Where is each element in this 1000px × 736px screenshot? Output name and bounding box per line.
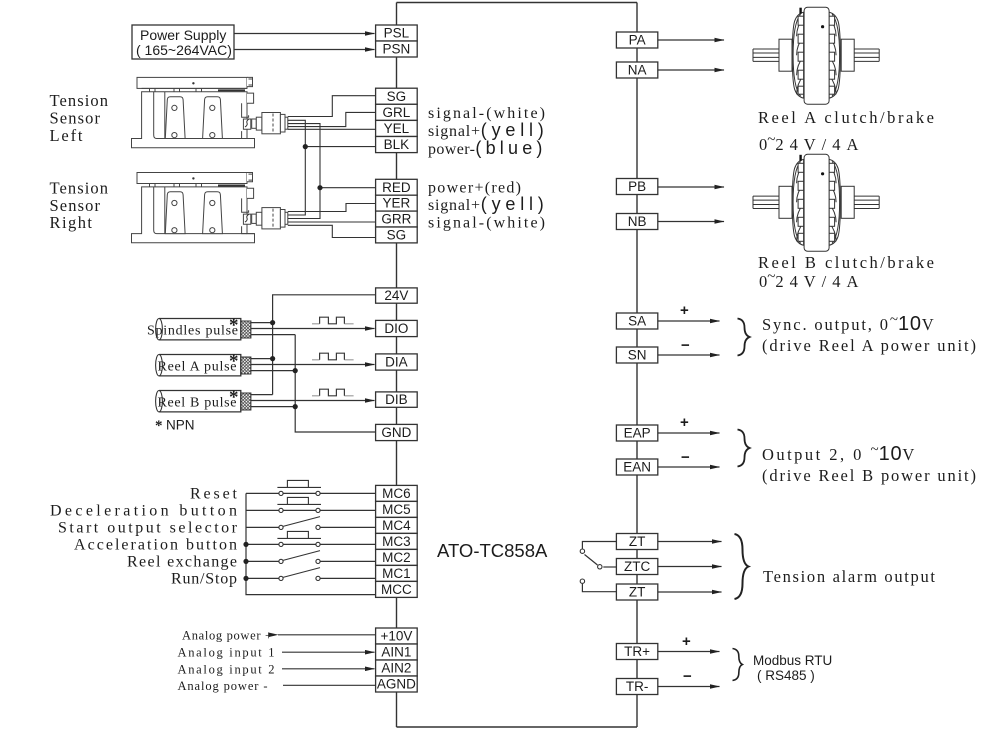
svg-text:+: + (680, 302, 689, 319)
wire reelA top (251, 358, 273, 360)
svg-text:Analog input 1: Analog input 1 (178, 646, 275, 660)
junction 24Vbus/spindles (270, 320, 275, 325)
pulse source Reel B (156, 387, 251, 412)
wire SN output (658, 354, 720, 356)
svg-text:ATO-TC858A: ATO-TC858A (437, 540, 548, 561)
svg-text:Power Supply: Power Supply (140, 27, 226, 43)
junction GNDbus/reelB (293, 404, 298, 409)
svg-text:Spindles pulse: Spindles pulse (147, 324, 238, 339)
wire BLK tee (305, 146, 375, 148)
terminal SA (616, 313, 657, 329)
terminal YEL (376, 120, 418, 136)
svg-text:+10V: +10V (380, 629, 412, 644)
terminal MC1 (376, 565, 418, 581)
contact circles MC5 (279, 508, 283, 512)
svg-text:*: * (229, 387, 239, 408)
svg-text:Analog input 2: Analog input 2 (178, 662, 275, 676)
wire AIN1 (282, 651, 375, 653)
terminal +10V (376, 628, 418, 644)
wire AIN2 (282, 668, 375, 670)
wire ZT1 left (582, 542, 616, 549)
wire power supply to PSN (234, 49, 375, 51)
wire ZT2 out (658, 591, 722, 593)
selector MC2 (283, 551, 320, 561)
junction bus/MC2 (243, 559, 248, 564)
pulse waveform DIA (312, 359, 354, 361)
terminal ZTC (616, 559, 657, 575)
terminal 24V (376, 288, 418, 303)
wire power supply to PSL (234, 33, 375, 35)
terminal MCC (376, 581, 418, 597)
svg-text:Reel A clutch/brake: Reel A clutch/brake (758, 108, 934, 127)
ZT alarm relay wires (582, 542, 616, 592)
svg-text:*: * (229, 315, 239, 336)
wire L4 to GRL (288, 112, 376, 126)
body dot (821, 25, 824, 28)
svg-text:MCC: MCC (381, 582, 412, 597)
svg-text:0~24V/4A: 0~24V/4A (759, 269, 858, 291)
terminal ZT (top) (616, 534, 657, 550)
selector MC1 (283, 568, 320, 578)
svg-text:Acceleration button: Acceleration button (74, 537, 237, 554)
svg-text:Reel B pulse: Reel B pulse (158, 396, 237, 411)
svg-text:SG: SG (387, 228, 407, 243)
svg-text:Start output selector: Start output selector (58, 520, 238, 537)
wire spindles top (251, 322, 273, 324)
svg-text:MC4: MC4 (382, 518, 411, 533)
pushbutton MC6 (277, 480, 321, 487)
svg-text:DIB: DIB (385, 392, 408, 407)
svg-text:Sync. output, 0~10V: Sync. output, 0~10V (762, 312, 934, 335)
pulse source Spindles (147, 315, 251, 340)
controller outline (big rectangle) (397, 3, 638, 728)
terminal PSN (376, 41, 418, 57)
selector MC4 (283, 517, 320, 527)
svg-text:Sensor: Sensor (50, 108, 101, 127)
svg-text:SN: SN (628, 348, 647, 363)
svg-text:NPN: NPN (166, 418, 195, 433)
right disc (829, 12, 840, 98)
svg-text:MC3: MC3 (382, 534, 411, 549)
svg-text:SA: SA (628, 314, 646, 329)
wire reelA mid to DIA (251, 364, 375, 366)
svg-text:TR-: TR- (626, 679, 649, 694)
brace output2 (738, 430, 750, 467)
wire ZT1 out (658, 541, 722, 543)
svg-text:+: + (682, 633, 691, 650)
terminal GRL (376, 104, 418, 120)
svg-text:Modbus RTU: Modbus RTU (753, 653, 832, 668)
tension sensor left (load cell drawing) (132, 77, 288, 147)
wire L3 shared red vertical (288, 124, 320, 219)
label tension sensor right (50, 178, 109, 232)
key tick (799, 8, 801, 14)
terminal DIB (376, 392, 418, 407)
svg-text:ZT: ZT (629, 585, 646, 600)
svg-text:Reset: Reset (190, 486, 238, 503)
svg-text:*: * (229, 351, 239, 372)
svg-text:PB: PB (628, 179, 646, 194)
svg-text:signal+(yell): signal+(yell) (428, 194, 544, 214)
wire GND bus vertical (295, 335, 375, 432)
wire ZTC out (658, 566, 722, 568)
svg-text:0~24V/4A: 0~24V/4A (759, 132, 858, 154)
terminal GRR (376, 211, 418, 227)
svg-text:Sensor: Sensor (50, 196, 101, 215)
svg-text:Output 2, 0 ~10V: Output 2, 0 ~10V (762, 442, 914, 465)
terminal AIN2 (376, 660, 418, 676)
wire R5 to SG2 (288, 225, 376, 237)
svg-text:−: − (681, 337, 690, 354)
terminal DIA (376, 354, 418, 370)
svg-text:EAN: EAN (623, 460, 651, 475)
wire reelB bottom (251, 406, 295, 408)
right shaft (853, 49, 879, 61)
terminal PA (616, 32, 657, 48)
svg-text:GRL: GRL (383, 105, 411, 120)
inner slot (154, 92, 247, 139)
wire R4 to GRR (288, 221, 376, 223)
right terminal column (616, 32, 657, 695)
svg-text:AGND: AGND (377, 677, 416, 692)
wire spindles mid to DIO (251, 328, 375, 330)
left hub (779, 39, 792, 71)
svg-text:24V: 24V (384, 288, 408, 303)
svg-text:ZTC: ZTC (624, 559, 650, 574)
tab 1 (165, 97, 185, 139)
svg-text:GND: GND (381, 425, 411, 440)
terminal MC6 (376, 485, 418, 501)
svg-text:Analog power +: Analog power + (182, 628, 272, 642)
svg-text:MC6: MC6 (382, 486, 411, 501)
svg-text:NA: NA (628, 63, 647, 78)
svg-text:MC5: MC5 (382, 502, 411, 517)
24V bus wiring (251, 295, 376, 432)
svg-text:−: − (683, 668, 692, 685)
svg-text:MC1: MC1 (382, 566, 411, 581)
wire reelB mid to DIB (251, 400, 375, 402)
terminal BLK (376, 137, 418, 153)
svg-text:Reel exchange: Reel exchange (127, 554, 237, 571)
terminal PB (616, 179, 657, 195)
svg-text:PSL: PSL (384, 26, 410, 41)
left disc (792, 12, 803, 98)
junction bus/MC3 (243, 542, 248, 547)
wire AGND (283, 684, 376, 686)
svg-text:Analog power -: Analog power - (178, 679, 268, 693)
svg-text:SG: SG (387, 89, 407, 104)
junction red/RED (317, 185, 322, 190)
svg-text:YER: YER (383, 196, 411, 211)
junction GNDbus/reelA (293, 368, 298, 373)
terminal DIO (376, 320, 418, 336)
relay moving contact (585, 555, 598, 566)
svg-text:AIN2: AIN2 (381, 661, 411, 676)
svg-text:MC2: MC2 (382, 550, 411, 565)
wire spindles bottom (251, 334, 295, 336)
svg-text:Tension: Tension (50, 178, 109, 197)
wire MC3 row (246, 543, 376, 545)
terminal EAP (616, 425, 657, 441)
svg-text:NB: NB (628, 214, 647, 229)
wire reelB top (251, 394, 273, 396)
terminal EAN (616, 459, 657, 475)
terminal AIN1 (376, 644, 418, 660)
terminal MC3 (376, 533, 418, 549)
pushbutton MC3 (277, 531, 321, 538)
wire L5 to YEL (288, 128, 376, 130)
terminal SG2 (376, 227, 418, 243)
svg-text:BLK: BLK (384, 137, 410, 152)
top bar (137, 77, 247, 88)
tension sensor right (load cell drawing) (132, 173, 288, 243)
right side blocks (247, 77, 253, 86)
svg-text:Tension alarm output: Tension alarm output (763, 567, 935, 586)
svg-text:PA: PA (629, 33, 646, 48)
wire L2 shared blue vertical (288, 120, 306, 215)
svg-text:Left: Left (50, 126, 83, 145)
terminal SN (616, 347, 657, 363)
svg-text:+: + (680, 414, 689, 431)
svg-text:Run/Stop: Run/Stop (171, 571, 237, 588)
svg-text:RED: RED (382, 180, 411, 195)
terminal MC2 (376, 549, 418, 565)
svg-text:(drive Reel B power unit): (drive Reel B power unit) (762, 466, 976, 485)
svg-text:YEL: YEL (384, 121, 410, 136)
svg-text:( RS485 ): ( RS485 ) (757, 668, 815, 683)
terminal TR+ (616, 644, 657, 660)
wire TR+ out (658, 651, 720, 653)
center body (804, 7, 829, 104)
terminal GND (376, 424, 418, 440)
wire EAN output (658, 466, 720, 468)
terminal MC4 (376, 517, 418, 533)
svg-text:( 165~264VAC): ( 165~264VAC) (136, 42, 232, 58)
contact circles MC6 (279, 491, 283, 495)
svg-text:−: − (681, 449, 690, 466)
left shaft (753, 49, 779, 61)
connector plug (252, 119, 257, 128)
terminal YER (376, 195, 418, 211)
svg-text:ZT: ZT (629, 534, 646, 549)
wire PA to reel A (658, 39, 724, 41)
relay contact circle 1 (580, 549, 584, 553)
tab 2 (203, 97, 223, 139)
strip under bar (142, 88, 247, 91)
terminal PSL (376, 25, 418, 41)
svg-text:Reel B clutch/brake: Reel B clutch/brake (758, 253, 934, 272)
terminal RED (376, 179, 418, 195)
relay contact circle 2 (598, 565, 602, 569)
terminal TR- (616, 679, 657, 695)
svg-text:(drive Reel A power unit): (drive Reel A power unit) (762, 336, 976, 355)
svg-text:power-(blue): power-(blue) (428, 138, 542, 158)
wire +10V arrow left (278, 634, 376, 636)
svg-text:Reel A pulse: Reel A pulse (158, 360, 237, 375)
svg-text:signal+(yell): signal+(yell) (428, 120, 544, 140)
wire MC4 row (246, 526, 376, 528)
power supply box (132, 25, 234, 59)
connector strain squiggle (243, 119, 250, 129)
body outline with flange (132, 92, 255, 148)
svg-text:signal-(white): signal-(white) (428, 215, 545, 232)
relay contact circle 3 (580, 579, 584, 583)
wire PB to reel B (658, 186, 724, 188)
brace modbus (733, 649, 743, 681)
reel B clutch/brake drawing (753, 154, 879, 251)
svg-text:DIA: DIA (385, 355, 408, 370)
svg-text:Right: Right (50, 213, 93, 232)
wire reelA bottom (251, 370, 295, 372)
wire ZT2 left (582, 584, 616, 592)
svg-text:TR+: TR+ (624, 644, 650, 659)
terminal NA (616, 62, 657, 78)
reel A clutch/brake drawing (753, 7, 879, 104)
terminal MC5 (376, 501, 418, 517)
svg-text:EAP: EAP (624, 426, 651, 441)
contact circles MC1 (279, 576, 283, 580)
wire SA output (658, 320, 720, 322)
wire R1 to YER (288, 204, 376, 212)
contact circles MC4 (279, 525, 283, 529)
wire MC1 row (246, 577, 376, 579)
junction bus/MC1 (243, 576, 248, 581)
wire RED tee (320, 187, 376, 189)
junction 24Vbus/reelA (270, 356, 275, 361)
label tension sensor left (50, 91, 109, 145)
wire NA to reel A (658, 69, 724, 71)
wire NB to reel B (658, 221, 724, 223)
MC left bus (246, 493, 376, 594)
svg-text:GRR: GRR (381, 212, 411, 227)
pushbutton MC5 (277, 497, 321, 504)
svg-text:DIO: DIO (384, 321, 408, 336)
svg-text:Deceleration button: Deceleration button (50, 503, 237, 520)
pulse waveform DIB (312, 395, 354, 397)
pulse source Reel A (156, 351, 251, 376)
brace sync output (738, 319, 750, 356)
svg-text:Tension: Tension (50, 91, 109, 110)
pulse waveform DIO (312, 323, 354, 325)
wire TR- out (658, 686, 720, 688)
wire MC6 row (246, 492, 376, 494)
wire EAP output (658, 432, 720, 434)
terminal SG (376, 88, 418, 104)
svg-text:PSN: PSN (383, 42, 411, 57)
wire 24V bus vertical (273, 295, 376, 395)
brace alarm (735, 534, 749, 599)
left terminal column (376, 25, 418, 692)
junction blue/BLK (303, 144, 308, 149)
svg-text:AIN1: AIN1 (381, 645, 411, 660)
contact circles MC3 (279, 542, 283, 546)
terminal NB (616, 214, 657, 230)
contact circles MC2 (279, 559, 283, 563)
wire ZTC left (603, 566, 616, 568)
wire MC2 row (246, 560, 376, 562)
wire L1 to SG (288, 96, 376, 117)
terminal ZT (bottom) (616, 584, 657, 600)
wire MC5 row (246, 509, 376, 511)
terminal AGND (376, 676, 418, 692)
sensor left wires (288, 96, 376, 238)
svg-text:*: * (155, 418, 163, 434)
right hub (841, 39, 854, 71)
